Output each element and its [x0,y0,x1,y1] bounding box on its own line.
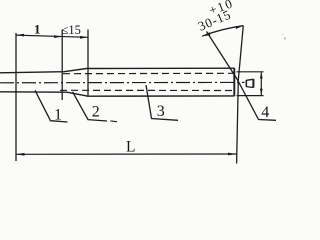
svg-text:4: 4 [261,104,269,121]
leader 1 [35,90,68,122]
hidden wire top [63,72,234,74]
svg-text:L: L [126,139,135,156]
top dimension line [16,35,88,37]
tip extension bottom [237,95,264,97]
svg-text:3: 3 [157,103,165,120]
scan speck [284,37,286,39]
tip dim arrows [260,72,263,79]
extension x88 [87,30,89,98]
svg-text:≤15: ≤15 [62,23,81,37]
angle arc [202,26,243,37]
coating bottom edge [88,95,235,97]
arc arrows [202,32,211,36]
centerline [0,81,245,83]
L dimension line [16,153,237,155]
arrow left of top dim [16,34,24,37]
wire top edge [0,69,87,73]
right slanted ray / L extension [237,26,244,164]
L arrows [16,153,25,156]
left extension line [15,33,17,161]
svg-text:1: 1 [34,22,41,37]
svg-text:2: 2 [92,104,100,121]
underline tick 2 [111,120,118,123]
coating top edge [87,67,235,69]
wire bottom edge [0,92,88,96]
leader 3 [146,85,178,120]
tip small dimension [260,73,262,96]
tip stub [245,80,247,87]
svg-text:1: 1 [54,107,62,124]
hidden wire bottom [60,89,234,91]
tip extension top [237,71,264,73]
arrow right at 62 [54,35,62,38]
angle left ray + leader 4 [207,32,277,121]
extension x62 [61,30,63,101]
arrow right at 88 [80,36,88,39]
leader 2 [73,92,107,121]
coating end face [233,68,235,96]
